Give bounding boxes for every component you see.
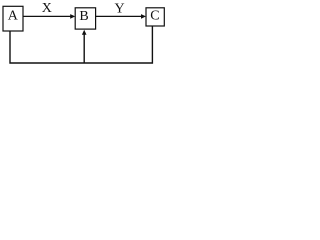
svg-text:Y: Y [115, 1, 125, 16]
svg-text:X: X [42, 1, 52, 16]
svg-text:A: A [8, 9, 19, 24]
svg-text:B: B [79, 9, 88, 24]
svg-text:C: C [150, 9, 159, 24]
